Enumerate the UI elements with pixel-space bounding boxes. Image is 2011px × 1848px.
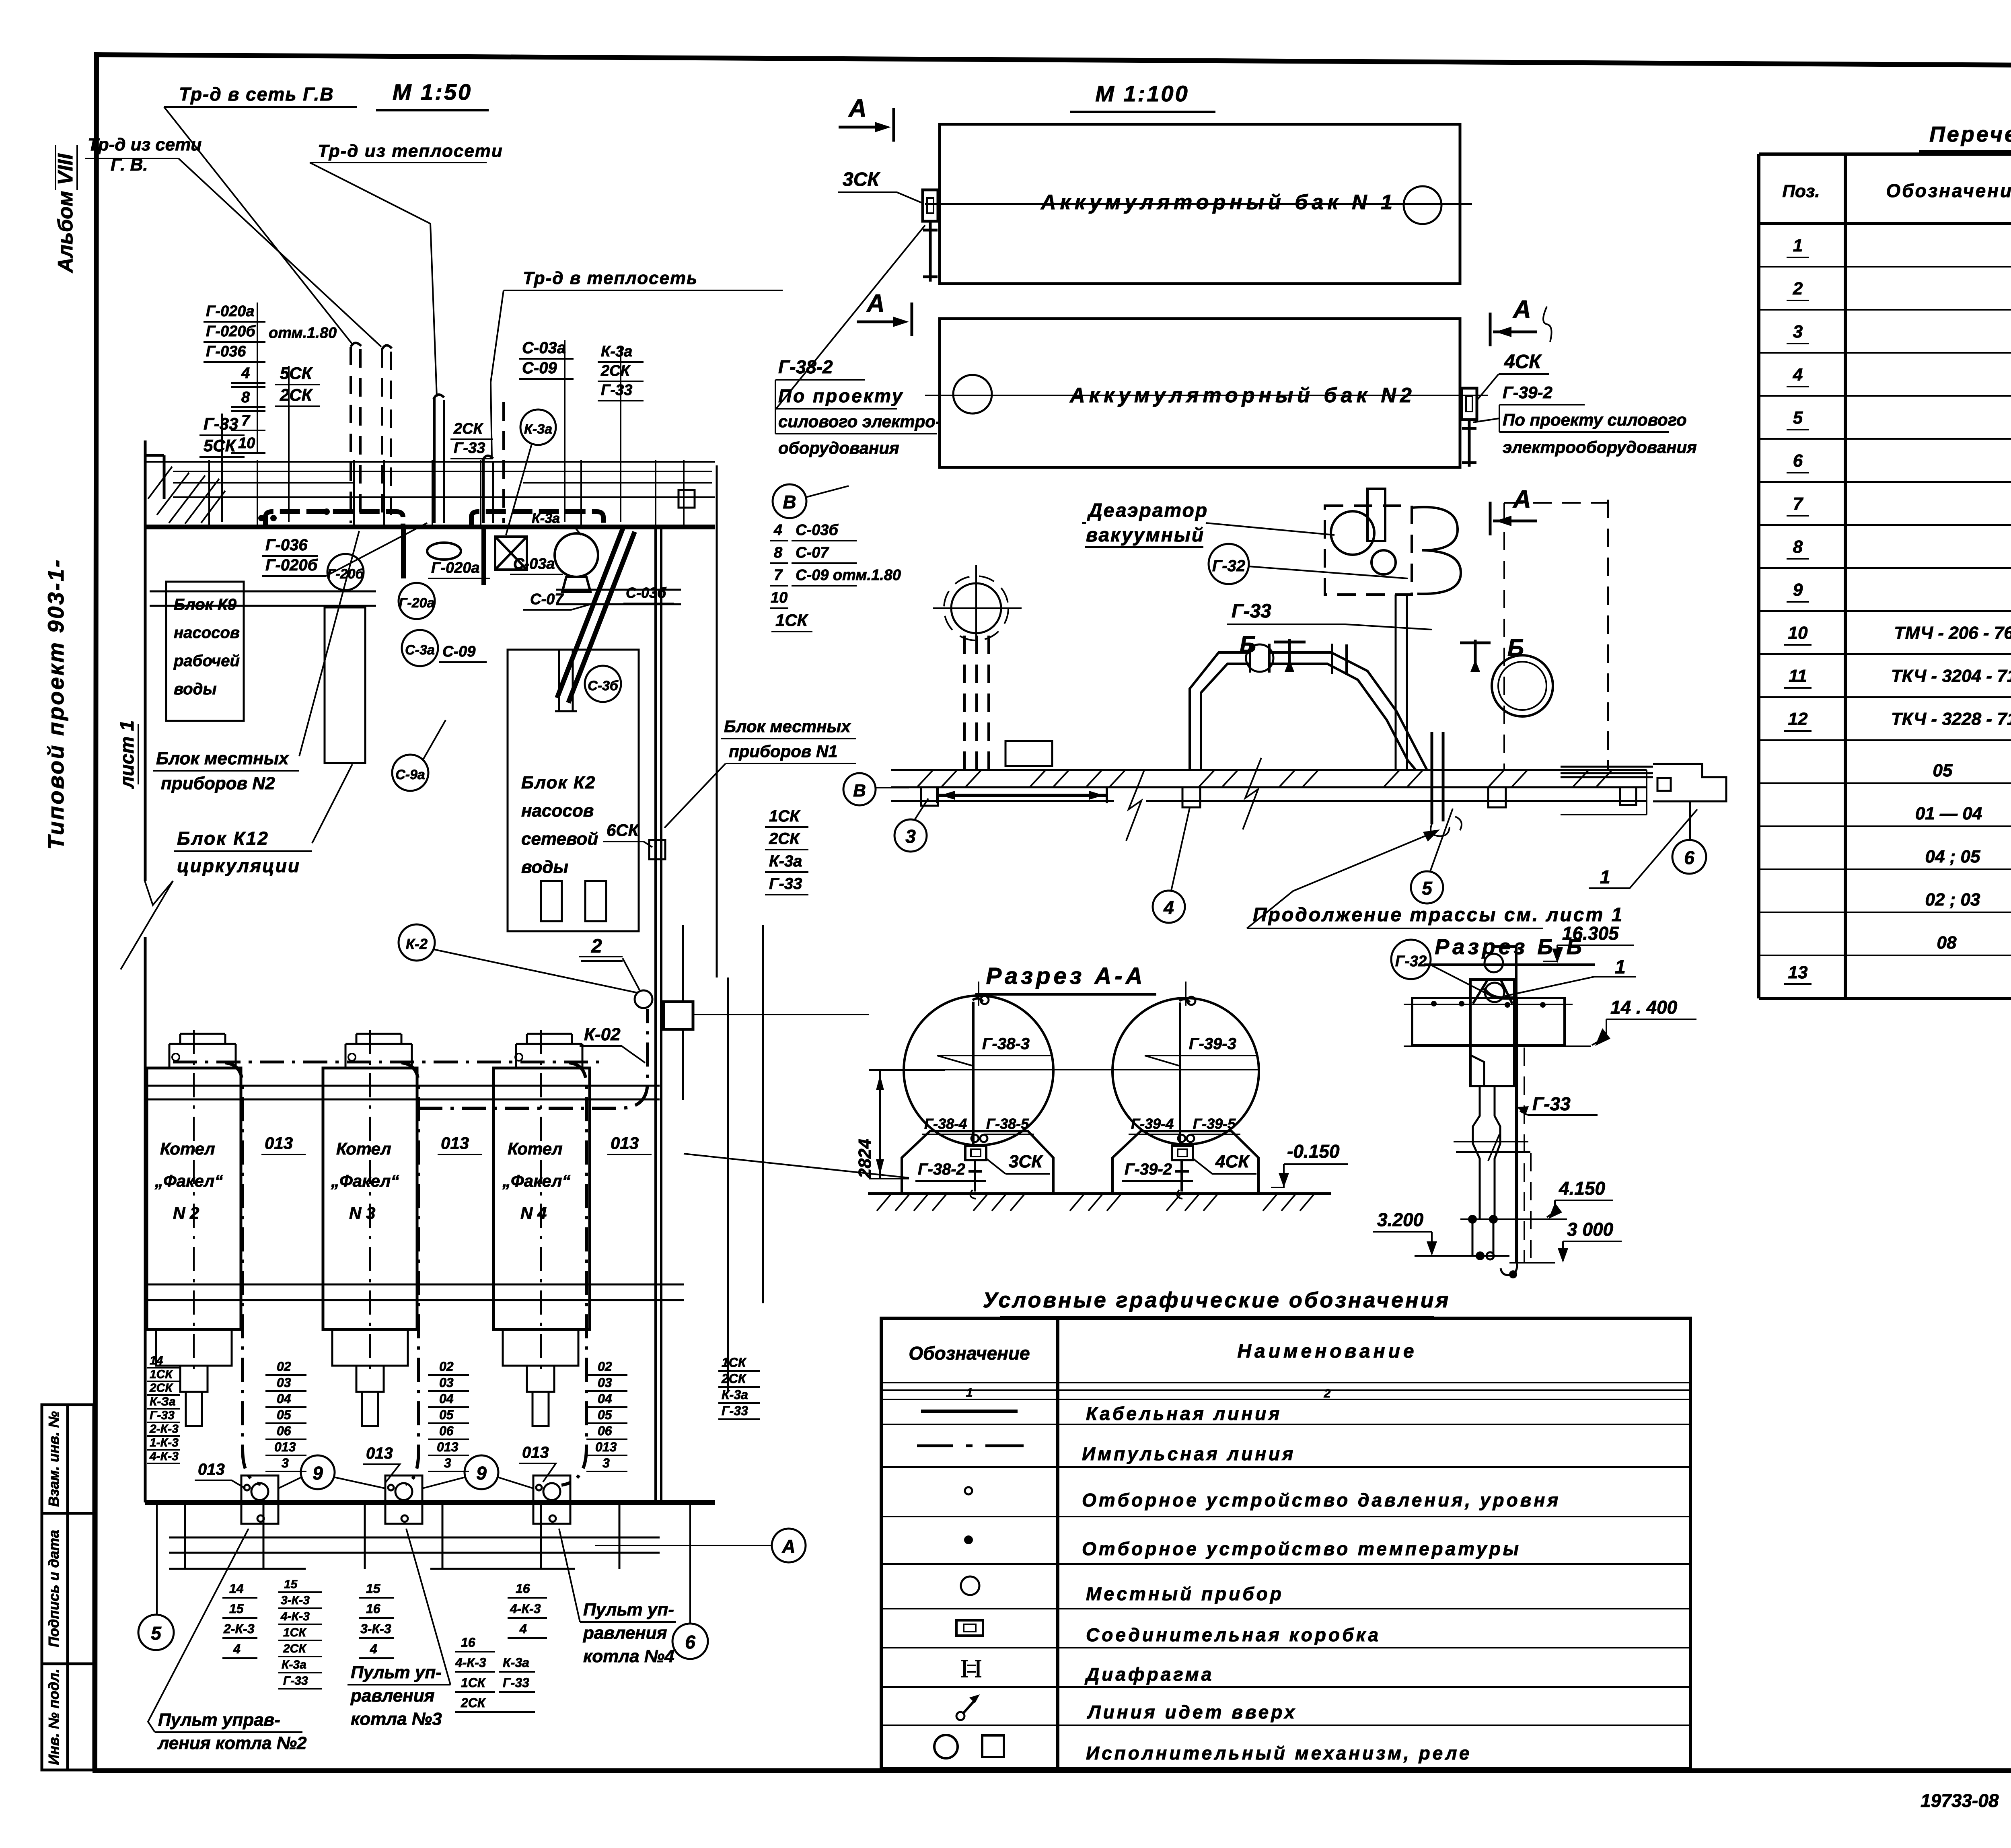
axis bubble V (773, 484, 806, 518)
svg-text:Г-38-2: Г-38-2 (778, 356, 833, 377)
svg-text:сетевой: сетевой (521, 829, 598, 849)
svg-text:ТКЧ - 3204 - 71: ТКЧ - 3204 - 71 (1891, 666, 2011, 686)
svg-text:15: 15 (229, 1601, 244, 1616)
DEAERATOR (843, 489, 1726, 928)
svg-text:Г-33: Г-33 (601, 382, 632, 399)
svg-text:Г-38-4: Г-38-4 (924, 1115, 967, 1132)
solid pipe from teploset (434, 395, 444, 523)
column rect (325, 607, 365, 763)
svg-text:2СК: 2СК (283, 1642, 307, 1655)
junction box in tank1 (965, 1146, 986, 1160)
svg-text:С-07: С-07 (530, 591, 564, 608)
svg-text:-0.150: -0.150 (1287, 1141, 1340, 1162)
bubble S-3b (585, 666, 621, 702)
svg-text:7: 7 (241, 412, 251, 429)
svg-text:4-К-3: 4-К-3 (455, 1655, 486, 1670)
wall band top (145, 462, 715, 497)
svg-text:Г-33: Г-33 (454, 440, 485, 457)
svg-text:равления: равления (350, 1686, 435, 1706)
floor level reference line to section (684, 1154, 909, 1178)
svg-text:Аккумуляторный бак N 1: Аккумуляторный бак N 1 (1040, 191, 1396, 214)
svg-text:Блок местных: Блок местных (156, 749, 289, 768)
svg-text:вакуумный: вакуумный (1086, 525, 1205, 546)
svg-text:Блок местных: Блок местных (724, 717, 851, 736)
legend row texts (1082, 1403, 1561, 1764)
svg-text:04: 04 (277, 1391, 291, 1406)
svg-text:05: 05 (1933, 761, 1953, 780)
pump circle (555, 533, 598, 577)
svg-text:С-07: С-07 (796, 544, 829, 561)
svg-text:013: 013 (437, 1440, 459, 1454)
svg-text:4: 4 (1793, 365, 1803, 385)
svg-text:Г-036: Г-036 (206, 343, 246, 360)
beam with arrows (937, 794, 1107, 797)
svg-text:013: 013 (265, 1134, 293, 1152)
heavy drops below band (403, 526, 623, 698)
boiler 3 (493, 1068, 590, 1329)
svg-text:05: 05 (439, 1408, 454, 1422)
pipe run dots (258, 515, 265, 521)
break mark mid platform (1243, 758, 1261, 829)
dim 2824 (869, 1070, 945, 1179)
tank circle 1 (904, 996, 1053, 1145)
pos bubble 3 (894, 819, 927, 852)
parts table row lines (1759, 267, 2011, 955)
svg-text:Соединительная коробка: Соединительная коробка (1086, 1624, 1381, 1645)
SECTION-BB (1373, 923, 1696, 1278)
svg-text:2-К-3: 2-К-3 (223, 1622, 255, 1636)
svg-text:Тр-д в сеть Г.В: Тр-д в сеть Г.В (179, 84, 334, 105)
legend row lines (881, 1424, 1690, 1725)
beam (1412, 998, 1565, 1045)
svg-text:оборудования: оборудования (778, 438, 899, 457)
svg-text:С-9а: С-9а (395, 767, 425, 782)
bubble S-9a (392, 755, 428, 791)
svg-text:3СК: 3СК (843, 169, 880, 190)
bottom dots (1468, 1215, 1477, 1224)
svg-text:013: 013 (366, 1445, 393, 1462)
svg-text:1-К-3: 1-К-3 (150, 1436, 179, 1449)
bubble K-2 (399, 924, 435, 961)
svg-text:„Факел“: „Факел“ (502, 1171, 570, 1190)
svg-text:4: 4 (370, 1642, 377, 1656)
dashed pipes to wall (351, 347, 391, 523)
oboznachenie column entries (1891, 623, 2011, 953)
svg-text:1СК: 1СК (150, 1368, 173, 1381)
tank 2 (940, 319, 1460, 467)
svg-text:К-3а: К-3а (503, 1655, 529, 1670)
svg-text:Г-020а: Г-020а (206, 303, 255, 320)
mid ladders (149, 1354, 179, 1463)
platform lower line (891, 770, 1647, 815)
svg-text:13: 13 (1788, 963, 1808, 982)
svg-text:К-3а: К-3а (282, 1658, 306, 1671)
tank end circle (1492, 655, 1553, 716)
tank circle 2 (1112, 998, 1259, 1144)
top valve assembly (1485, 954, 1503, 972)
svg-text:8: 8 (1793, 537, 1803, 557)
rails top (145, 1086, 660, 1099)
svg-text:С-03а: С-03а (513, 556, 555, 572)
svg-text:1СК: 1СК (722, 1355, 747, 1370)
column narrows (1470, 1055, 1514, 1086)
svg-text:013: 013 (595, 1440, 617, 1454)
small box on platform (1005, 741, 1052, 766)
svg-text:4СК: 4СК (1215, 1152, 1250, 1171)
block K2 (508, 650, 639, 931)
local circle (635, 990, 652, 1008)
svg-text:силового электро-: силового электро- (778, 412, 941, 431)
svg-text:Деаэратор: Деаэратор (1087, 500, 1208, 521)
svg-text:15: 15 (366, 1581, 381, 1596)
svg-text:013: 013 (441, 1134, 469, 1152)
cap instrument dots (172, 1054, 179, 1061)
svg-text:приборов N1: приборов N1 (729, 742, 838, 761)
svg-text:приборов N2: приборов N2 (161, 774, 275, 793)
ground line (868, 1192, 1331, 1195)
svg-text:2СК: 2СК (453, 420, 484, 437)
parts table grid (1759, 154, 2011, 998)
platform right end step (1561, 764, 1726, 801)
svg-text:Диафрагма: Диафрагма (1084, 1664, 1214, 1685)
pedestal 1 (902, 1131, 1053, 1194)
bottom ladders (223, 1581, 255, 1656)
svg-text:4: 4 (773, 522, 782, 539)
leader (179, 158, 381, 347)
svg-text:N 4: N 4 (520, 1204, 547, 1222)
LEGEND (881, 1288, 1690, 1768)
descending pipes (1473, 1086, 1500, 1219)
svg-text:02: 02 (598, 1359, 612, 1374)
svg-text:Г-036: Г-036 (265, 536, 308, 554)
axis bubble V platform (843, 773, 876, 805)
boiler 1 (147, 1068, 241, 1329)
bubble 6 (672, 1624, 708, 1659)
svg-text:Альбом VIII: Альбом VIII (54, 153, 77, 274)
leader to note (775, 225, 925, 410)
svg-text:14 . 400: 14 . 400 (1610, 997, 1678, 1018)
cable drops (225, 1063, 586, 1485)
axis bubble A (772, 1529, 806, 1562)
svg-text:Котел: Котел (508, 1139, 563, 1158)
svg-text:2СК: 2СК (280, 385, 313, 404)
svg-text:11: 11 (1789, 666, 1807, 686)
svg-text:Линия идет вверх: Линия идет вверх (1087, 1702, 1297, 1722)
svg-text:4: 4 (233, 1642, 241, 1656)
pump cross box (495, 537, 527, 570)
svg-text:Г-32: Г-32 (1395, 953, 1427, 970)
G-32 bubble (1391, 940, 1431, 979)
svg-text:03: 03 (277, 1375, 291, 1390)
svg-text:Г-33: Г-33 (722, 1403, 748, 1418)
svg-text:С-03б: С-03б (796, 522, 839, 539)
svg-text:Поз.: Поз. (1782, 181, 1820, 201)
svg-text:6: 6 (1684, 847, 1694, 868)
svg-text:Аккумуляторный бак N2: Аккумуляторный бак N2 (1069, 384, 1416, 407)
svg-text:3: 3 (282, 1456, 289, 1470)
svg-text:Типовой проект 903-1-: Типовой проект 903-1- (43, 558, 68, 850)
svg-text:16.305: 16.305 (1562, 923, 1619, 944)
junction box symbol (956, 1620, 983, 1636)
svg-text:2СК: 2СК (149, 1381, 173, 1395)
svg-text:Перечень составных частей: Перечень составных частей (1929, 122, 2011, 146)
svg-text:Г-38-5: Г-38-5 (986, 1115, 1029, 1132)
svg-text:2СК: 2СК (721, 1371, 747, 1386)
svg-text:Пульт уп-: Пульт уп- (583, 1600, 674, 1620)
TITLEBLOCK (1921, 1703, 2011, 1838)
chimney pipes dashed (964, 636, 989, 770)
legend table grid (881, 1318, 1690, 1768)
bubble 5 (138, 1615, 174, 1650)
svg-text:С-03а: С-03а (522, 339, 566, 357)
svg-text:Г-39-4: Г-39-4 (1131, 1115, 1174, 1132)
svg-text:2: 2 (591, 936, 602, 957)
cable line symbol (921, 1410, 1018, 1413)
wall junction box (649, 840, 665, 859)
bubble G-20b (327, 554, 364, 590)
block K9 (166, 582, 244, 721)
junction box in tank2 (1172, 1146, 1193, 1160)
arch valve (1246, 644, 1273, 672)
PLAN (85, 79, 909, 1502)
svg-text:К-За: К-За (150, 1395, 175, 1408)
impulse line across boiler caps (173, 1061, 603, 1064)
svg-text:1: 1 (1615, 957, 1626, 978)
svg-text:4.150: 4.150 (1559, 1178, 1606, 1199)
svg-text:5: 5 (151, 1623, 162, 1644)
svg-text:С-09: С-09 (442, 643, 475, 660)
svg-text:15: 15 (284, 1578, 298, 1591)
svg-text:3.200: 3.200 (1377, 1209, 1424, 1230)
svg-text:08: 08 (1937, 933, 1957, 953)
svg-text:Исполнительный механизм, рел: Исполнительный механизм, реле (1086, 1743, 1472, 1764)
svg-text:котла №3: котла №3 (351, 1709, 442, 1729)
svg-text:Г-33: Г-33 (503, 1675, 529, 1690)
left wall bottom (144, 937, 147, 1502)
svg-text:9: 9 (313, 1463, 323, 1484)
pipe arch (1190, 652, 1427, 770)
break lines (1454, 1134, 1530, 1161)
svg-text:электрооборудования: электрооборудования (1503, 438, 1697, 457)
svg-text:013: 013 (522, 1444, 549, 1461)
svg-text:Г-38-2: Г-38-2 (918, 1161, 965, 1178)
svg-text:воды: воды (521, 857, 568, 877)
local instrument symbol (961, 1576, 979, 1595)
svg-text:2СК: 2СК (600, 362, 631, 379)
svg-text:013: 013 (274, 1440, 296, 1454)
svg-text:К-3а: К-3а (769, 852, 802, 870)
svg-text:Наименование: Наименование (1237, 1341, 1417, 1362)
svg-text:7: 7 (1793, 494, 1804, 514)
svg-text:02: 02 (277, 1359, 291, 1374)
svg-text:Г-38-3: Г-38-3 (982, 1035, 1030, 1053)
svg-text:5СК: 5СК (204, 436, 237, 455)
svg-text:3 000: 3 000 (1567, 1219, 1614, 1240)
svg-text:котла №4: котла №4 (583, 1646, 674, 1666)
tank 1 (940, 124, 1460, 284)
svg-text:N 3: N 3 (349, 1204, 375, 1222)
svg-text:насосов: насосов (174, 624, 240, 642)
svg-text:Г-39-2: Г-39-2 (1125, 1161, 1172, 1178)
svg-text:К-3а: К-3а (601, 343, 632, 360)
svg-text:Блок К2: Блок К2 (521, 773, 596, 792)
deaerator lobes (1413, 507, 1461, 594)
svg-text:2СК: 2СК (769, 830, 800, 848)
svg-text:9: 9 (1793, 580, 1803, 600)
svg-text:циркуляции: циркуляции (177, 855, 300, 876)
svg-text:ТМЧ - 206 - 76: ТМЧ - 206 - 76 (1894, 623, 2011, 643)
svg-text:„Факел“: „Факел“ (331, 1171, 399, 1190)
BOILERS (145, 1009, 684, 1485)
svg-text:Г-39-5: Г-39-5 (1193, 1115, 1236, 1132)
deaerator legs (1396, 595, 1407, 770)
leader (491, 290, 504, 459)
svg-text:С-09 отм.1.80: С-09 отм.1.80 (796, 567, 901, 584)
svg-text:воды: воды (174, 680, 216, 698)
svg-text:3: 3 (1793, 322, 1803, 342)
G-32 bubble (1209, 544, 1249, 584)
svg-text:1СК: 1СК (461, 1675, 486, 1690)
svg-text:1СК: 1СК (769, 807, 800, 825)
svg-text:3: 3 (602, 1456, 610, 1470)
tank1 internal pipe (973, 998, 983, 1147)
LEFTSTAMP (42, 145, 138, 1770)
platform supports (921, 787, 1636, 807)
svg-text:рабочей: рабочей (173, 652, 240, 670)
svg-text:Г-33: Г-33 (769, 875, 802, 893)
svg-text:03: 03 (439, 1375, 454, 1390)
leader to pipe (164, 107, 353, 345)
svg-text:04 ; 05: 04 ; 05 (1925, 847, 1981, 866)
zigzag break (121, 881, 173, 969)
svg-text:Блок К12: Блок К12 (177, 828, 269, 849)
leader (310, 163, 437, 397)
bubble S-3a (402, 630, 438, 666)
svg-text:К-02: К-02 (584, 1025, 621, 1044)
chimney circle (951, 583, 1001, 633)
svg-text:06: 06 (439, 1424, 454, 1438)
svg-text:3СК: 3СК (1009, 1152, 1043, 1171)
svg-text:14: 14 (150, 1354, 163, 1367)
svg-text:Обозначение: Обозначение (909, 1343, 1030, 1364)
svg-text:04: 04 (598, 1391, 612, 1406)
svg-text:2СК: 2СК (461, 1696, 486, 1710)
svg-text:Тр-д в теплосеть: Тр-д в теплосеть (523, 268, 698, 288)
pipe v teploset (483, 456, 493, 523)
left wall top step (145, 440, 164, 881)
boiler 2 (323, 1068, 417, 1329)
svg-text:06: 06 (277, 1424, 291, 1438)
svg-text:7: 7 (774, 567, 783, 584)
svg-text:лист 1: лист 1 (117, 720, 138, 789)
centerline ticks above circles (979, 982, 1186, 1006)
svg-text:А: А (848, 95, 867, 122)
svg-text:Г-39-3: Г-39-3 (1189, 1035, 1236, 1053)
wall pier hatch left (148, 467, 225, 524)
boiler 1 bottom stub (156, 1329, 232, 1426)
svg-text:4-К-3: 4-К-3 (149, 1450, 179, 1463)
rails bottom (145, 1284, 684, 1300)
svg-text:8: 8 (774, 544, 783, 561)
svg-text:По проекту силового: По проекту силового (1503, 410, 1687, 429)
svg-text:Г-33: Г-33 (1532, 1093, 1571, 1114)
svg-text:К-3а: К-3а (532, 511, 560, 526)
SECTION-AA (855, 963, 1348, 1211)
heavy pipe P-run left (265, 512, 403, 526)
svg-text:По проекту: По проекту (778, 385, 904, 406)
svg-text:Б: Б (1240, 632, 1256, 658)
bottom wall band (145, 1500, 715, 1505)
svg-text:4: 4 (1163, 897, 1174, 918)
K-02 junction box on wall (664, 1002, 693, 1029)
impulse line symbol (917, 1445, 1024, 1447)
svg-text:01 — 04: 01 — 04 (1915, 804, 1982, 823)
svg-text:Блок К9: Блок К9 (174, 596, 237, 613)
svg-text:3-К-3: 3-К-3 (281, 1594, 310, 1607)
pedestal 2 (1112, 1131, 1258, 1194)
svg-text:Г-39-2: Г-39-2 (1503, 383, 1552, 402)
svg-text:5СК: 5СК (280, 364, 313, 383)
svg-text:Котел: Котел (160, 1139, 215, 1158)
pos bubble 6 (1672, 840, 1706, 874)
svg-text:Г-33: Г-33 (1232, 601, 1271, 622)
heavy pipe P-run right (471, 512, 603, 526)
band column ticks (209, 460, 684, 527)
svg-text:насосов: насосов (521, 801, 594, 821)
svg-text:Г-020б: Г-020б (265, 556, 318, 574)
svg-text:3: 3 (905, 826, 916, 847)
svg-text:4-К-3: 4-К-3 (510, 1601, 541, 1616)
temperature tap symbol (964, 1535, 973, 1544)
svg-text:Г-32: Г-32 (1212, 557, 1245, 575)
svg-text:Отборное устройство давления: Отборное устройство давления, уровня (1082, 1490, 1561, 1511)
svg-text:19733-08: 19733-08 (1921, 1790, 1999, 1811)
actuator relay symbols (934, 1735, 958, 1758)
svg-text:04: 04 (439, 1391, 454, 1406)
svg-text:013: 013 (611, 1134, 639, 1152)
svg-text:12: 12 (1788, 709, 1808, 729)
svg-text:4: 4 (519, 1622, 527, 1636)
svg-text:N 2: N 2 (173, 1204, 199, 1222)
svg-text:1СК: 1СК (775, 611, 809, 630)
svg-text:02: 02 (439, 1359, 454, 1374)
svg-text:Обозначение: Обозначение (1886, 180, 2011, 201)
svg-text:Инв. № подл.: Инв. № подл. (45, 1669, 62, 1765)
svg-text:05: 05 (277, 1408, 292, 1422)
svg-text:Тр-д из теплосети: Тр-д из теплосети (318, 141, 503, 161)
bubbles 9 (301, 1455, 335, 1489)
tank2 internal pipe (1179, 999, 1190, 1147)
svg-text:Подпись и дата: Подпись и дата (45, 1530, 62, 1647)
svg-text:Г-33: Г-33 (283, 1674, 308, 1687)
svg-text:ления котла №2: ления котла №2 (157, 1733, 307, 1753)
junction box 3SK on tank1 (923, 190, 938, 221)
dashed survey lines (1504, 500, 1608, 770)
svg-text:Кабельная линия: Кабельная линия (1086, 1403, 1282, 1424)
svg-text:1: 1 (1793, 236, 1803, 255)
TANKS (773, 81, 1697, 535)
right wall verticals (656, 527, 661, 1502)
left stamp boxes (42, 1405, 94, 1770)
svg-text:отм.1.80: отм.1.80 (269, 325, 337, 342)
svg-text:06: 06 (598, 1424, 612, 1438)
svg-text:Импульсная линия: Импульсная линия (1082, 1443, 1295, 1464)
pos numbers (1788, 236, 1808, 982)
platform (891, 770, 1647, 787)
svg-text:К-2: К-2 (406, 936, 428, 952)
svg-text:1: 1 (966, 1386, 973, 1399)
svg-text:Г-020а: Г-020а (431, 560, 480, 576)
